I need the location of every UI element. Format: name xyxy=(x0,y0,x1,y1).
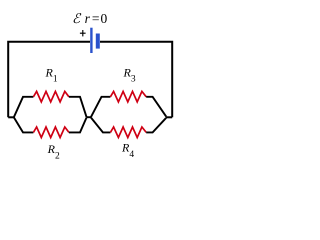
resistor R1 xyxy=(33,91,69,102)
node C: right junction stub xyxy=(166,116,172,118)
wire: left junction to R1 (diagonal + horizontal) xyxy=(14,97,34,118)
wire: left junction to R2 (diagonal + horizontal) xyxy=(14,117,34,132)
wire: R4 to right junction (horizontal + diagonal) xyxy=(146,118,166,133)
wire: R2 to center node (horizontal + diagonal) xyxy=(69,118,87,133)
wire left: from left junction up left side and across top to battery positive plate xyxy=(8,42,90,118)
resistor R2 xyxy=(33,127,69,138)
node B: center junction bar xyxy=(86,116,91,118)
wire: center node to R3 (diagonal + horizontal) xyxy=(91,97,110,117)
battery U1 positive plate (long) xyxy=(90,28,92,53)
svg-text:R1: R1 xyxy=(45,65,58,84)
svg-text:ℰ r=0: ℰ r=0 xyxy=(72,11,107,26)
svg-text:R3: R3 xyxy=(123,65,136,84)
svg-text:R4: R4 xyxy=(121,141,134,160)
battery U1 negative plate (short) xyxy=(96,34,100,49)
node A: left junction stub xyxy=(8,116,14,118)
resistor R4 xyxy=(110,127,146,138)
wire: center node to R4 (diagonal + horizontal) xyxy=(91,118,110,133)
battery + sign xyxy=(80,30,86,36)
resistor R3 xyxy=(110,91,146,102)
wire: R3 to right junction (horizontal + diagonal) xyxy=(146,97,166,117)
svg-text:R2: R2 xyxy=(47,142,60,161)
wire right: from battery negative plate across top and down right side to right junction xyxy=(100,42,172,118)
wire: R1 to center node (horizontal + diagonal) xyxy=(69,97,87,117)
